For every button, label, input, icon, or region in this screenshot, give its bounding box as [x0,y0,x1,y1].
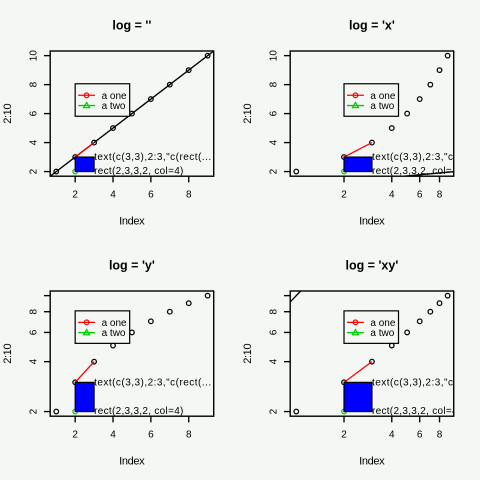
svg-text:8: 8 [437,429,443,440]
svg-text:8: 8 [269,308,280,314]
svg-text:2: 2 [269,168,280,174]
svg-text:6: 6 [417,429,423,440]
svg-text:a two: a two [102,328,126,339]
svg-text:log = 'xy': log = 'xy' [345,259,398,273]
svg-text:2:10: 2:10 [2,103,14,123]
svg-text:2: 2 [341,429,347,440]
svg-text:2:10: 2:10 [242,103,254,123]
svg-text:8: 8 [29,308,40,314]
svg-text:text(c(3,3),2:3,"c(rect(...: text(c(3,3),2:3,"c(rect(... [94,377,211,388]
svg-text:a two: a two [102,101,126,112]
svg-text:Index: Index [359,216,385,228]
svg-text:4: 4 [110,189,116,200]
svg-text:10: 10 [29,50,40,62]
svg-text:8: 8 [186,429,192,440]
svg-text:2: 2 [269,408,280,414]
svg-text:2: 2 [72,429,78,440]
svg-text:4: 4 [29,139,40,145]
svg-text:2: 2 [72,189,78,200]
svg-text:10: 10 [269,50,280,62]
svg-text:4: 4 [29,358,40,364]
svg-text:6: 6 [29,329,40,335]
svg-text:2: 2 [29,168,40,174]
svg-text:2:10: 2:10 [2,343,14,363]
svg-text:text(c(3,3),2:3,"c(rect(...: text(c(3,3),2:3,"c(rect(... [94,152,211,163]
svg-text:4: 4 [389,429,395,440]
svg-text:4: 4 [110,429,116,440]
svg-text:log = 'x': log = 'x' [349,19,395,33]
svg-text:4: 4 [269,358,280,364]
svg-text:2:10: 2:10 [242,343,254,363]
svg-text:2: 2 [29,408,40,414]
svg-text:Index: Index [119,456,145,468]
svg-text:2: 2 [341,189,347,200]
svg-text:6: 6 [148,429,154,440]
svg-text:a two: a two [370,101,394,112]
svg-text:6: 6 [148,189,154,200]
svg-text:log = 'y': log = 'y' [109,259,155,273]
svg-text:6: 6 [269,110,280,116]
svg-text:8: 8 [269,81,280,87]
svg-text:6: 6 [269,329,280,335]
svg-text:Index: Index [119,216,145,228]
svg-text:4: 4 [389,189,395,200]
svg-text:a two: a two [370,328,394,339]
svg-text:8: 8 [186,189,192,200]
svg-text:6: 6 [29,110,40,116]
svg-text:4: 4 [269,139,280,145]
svg-text:6: 6 [417,189,423,200]
svg-text:8: 8 [29,81,40,87]
svg-text:8: 8 [437,189,443,200]
svg-text:log = '': log = '' [112,19,151,33]
svg-text:Index: Index [359,456,385,468]
